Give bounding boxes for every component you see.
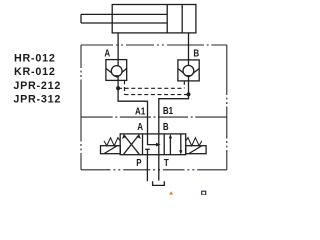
svg-text:HR-012: HR-012 [14, 52, 56, 64]
svg-text:JPR-212: JPR-212 [13, 80, 61, 92]
svg-text:B: B [163, 121, 169, 132]
svg-text:A: A [137, 121, 143, 132]
svg-text:B1: B1 [163, 105, 173, 116]
svg-text:P: P [136, 157, 141, 168]
svg-text:KR-012: KR-012 [14, 66, 56, 78]
svg-text:JPR-312: JPR-312 [13, 94, 61, 106]
svg-text:T: T [164, 157, 169, 168]
svg-text:A: A [104, 48, 110, 59]
svg-text:A1: A1 [135, 105, 145, 116]
svg-text:B: B [193, 47, 199, 58]
